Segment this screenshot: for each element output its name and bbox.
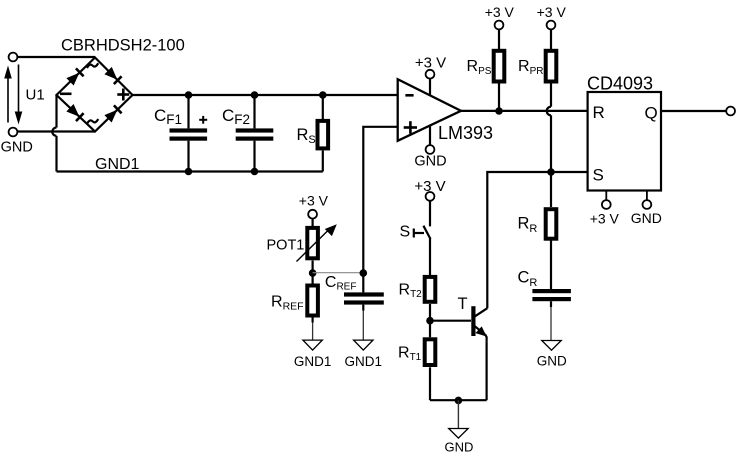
svg-text:GND1: GND1 (95, 156, 140, 173)
bridge minus mark (60, 93, 72, 96)
wire base (430, 320, 471, 322)
node CF1 bottom (185, 168, 193, 176)
svg-text:+3 V: +3 V (485, 4, 515, 20)
terminal bottom-left input (9, 128, 18, 137)
U1 voltage arrow (4, 65, 22, 125)
wire bottom input to bridge (17, 130, 95, 132)
capacitor CR (532, 289, 571, 341)
bridge rectifier CBRHDSH2-100 (57, 58, 133, 132)
node CF2 bottom (251, 168, 259, 176)
node CF1 top (185, 91, 193, 99)
svg-text:GND: GND (1, 140, 33, 156)
svg-text:GND: GND (414, 154, 446, 170)
ground GND1 under RREF (303, 340, 322, 350)
svg-text:GND: GND (631, 210, 662, 226)
terminal Q output (726, 107, 735, 116)
terminal top-left input (9, 53, 18, 62)
resistor RREF (307, 286, 318, 341)
node base junction (426, 317, 434, 325)
diode D3 bottom-left (66, 104, 83, 121)
wire hop RPR over output (547, 107, 551, 116)
svg-text:CD4093: CD4093 (587, 74, 653, 94)
wire emitter down (486, 342, 488, 401)
resistor RR (546, 172, 557, 289)
svg-text:GND1: GND1 (345, 354, 383, 369)
ground GND bottom (449, 429, 468, 439)
wire bottom rail (430, 399, 487, 401)
svg-text:S: S (400, 224, 411, 241)
wire to GND (457, 400, 459, 428)
node POT1 RREF junction (309, 269, 317, 277)
diode D2 top-right (104, 67, 121, 84)
wire top rail bridge to comparator (133, 94, 398, 96)
IC +3V pin (602, 191, 611, 209)
wire POT1 node to CREF (313, 272, 364, 274)
wire GND1 rail (57, 170, 323, 172)
node CREF top (360, 269, 368, 277)
transistor T (473, 306, 487, 342)
svg-text:T: T (458, 295, 468, 313)
resistor RPR (546, 21, 557, 107)
op-amp U LM393 (398, 79, 461, 141)
resistor RT1 (425, 339, 436, 400)
wire bridge left leg down to GND1 rail (55, 95, 57, 128)
svg-text:LM393: LM393 (438, 123, 493, 143)
resistor RT2 (425, 277, 436, 337)
wire plus input to CREF node (363, 127, 397, 272)
node RS top (319, 91, 327, 99)
wire hop bridge leg over bottom input wire (52, 128, 56, 136)
svg-text:GND: GND (537, 354, 567, 369)
capacitor CF1 (170, 95, 208, 172)
svg-text:R: R (593, 103, 605, 122)
diode D4 bottom-right (104, 105, 121, 122)
svg-text:GND1: GND1 (294, 354, 332, 369)
wire top input to bridge (17, 56, 95, 58)
wire Q output (661, 110, 726, 112)
terminal +3V POT1 (308, 210, 317, 219)
resistor RS (318, 95, 329, 172)
switch S (414, 201, 431, 275)
potentiometer POT1 (297, 219, 337, 284)
capacitor CREF (344, 273, 384, 340)
op-amp +3V supply terminal (426, 70, 435, 96)
wire comparator output to R input (461, 110, 588, 112)
wire S node to transistor collector (487, 172, 551, 308)
capacitor CF2 (236, 95, 274, 172)
svg-text:S: S (593, 166, 604, 185)
svg-text:+3 V: +3 V (299, 193, 329, 209)
IC CD4093 (588, 92, 661, 191)
svg-text:POT1: POT1 (267, 238, 305, 254)
svg-text:Q: Q (645, 104, 658, 123)
resistor RPS (494, 21, 505, 111)
IC GND pin (643, 191, 652, 209)
ground GND1 under CREF (354, 340, 373, 350)
bridge plus mark (117, 89, 129, 101)
node bottom rail (455, 397, 463, 405)
svg-text:+3 V: +3 V (415, 54, 446, 71)
terminal +3V switch (426, 192, 435, 201)
svg-text:GND: GND (445, 440, 474, 455)
node S junction (547, 168, 555, 176)
diode D1 top-left (66, 68, 83, 85)
wire RPR to S node (550, 115, 552, 172)
wire S node to S input (551, 171, 588, 173)
CF1 polarity plus (199, 116, 207, 124)
svg-text:U1: U1 (26, 87, 45, 104)
op-amp GND terminal (426, 125, 435, 154)
svg-text:+3 V: +3 V (414, 178, 445, 195)
node CF2 top (251, 91, 259, 99)
bridge ~ mark top (87, 63, 98, 68)
svg-text:CBRHDSH2-100: CBRHDSH2-100 (61, 37, 185, 55)
svg-text:+3 V: +3 V (590, 211, 620, 227)
bridge ~ mark bottom (87, 119, 98, 124)
node output junction (495, 107, 503, 115)
ground GND under CR (542, 341, 561, 351)
svg-text:+3 V: +3 V (537, 4, 567, 20)
